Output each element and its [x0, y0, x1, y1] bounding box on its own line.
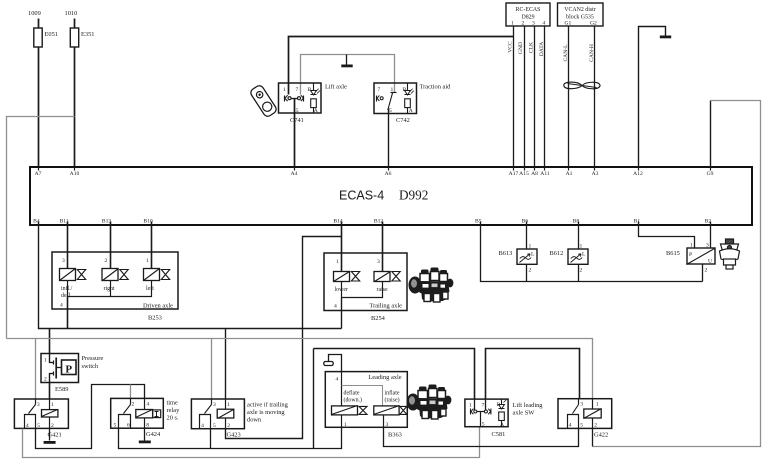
- svg-text:2: 2: [51, 423, 54, 429]
- svg-text:A10: A10: [70, 171, 80, 177]
- svg-text:3: 3: [62, 258, 65, 264]
- wire G423 pin 5 to bottom relay bus: [210, 429, 212, 449]
- fuse E051: [34, 28, 58, 47]
- svg-text:7: 7: [482, 403, 485, 409]
- svg-text:C581: C581: [492, 431, 506, 438]
- svg-text:time: time: [167, 400, 179, 407]
- wire ECAS B8 to height sensor B612 pin 1: [578, 222, 580, 249]
- wire B363 solenoid bottoms to pins 1 and 3: [342, 415, 384, 428]
- svg-text:5: 5: [114, 423, 117, 429]
- svg-text:1: 1: [469, 403, 472, 409]
- solenoid valve lower in B254: [334, 272, 360, 294]
- svg-text:1: 1: [44, 358, 47, 364]
- svg-text:RC-ECAS: RC-ECAS: [516, 7, 541, 13]
- solenoid valve right in B253: [102, 269, 128, 293]
- wire ECAS B6 to height sensor B613 pin 1: [526, 222, 528, 249]
- svg-text:B363: B363: [388, 432, 402, 439]
- wire ECAS B10 to B253 pin 1: [151, 222, 153, 269]
- wire G422 pin 2 down to right-edge loop: [592, 429, 594, 447]
- time relay G424 box: [111, 398, 180, 438]
- svg-text:1: 1: [529, 244, 532, 250]
- pin B10: [143, 219, 153, 225]
- solenoid valve left in B253: [144, 269, 170, 293]
- pin B4: [33, 219, 40, 225]
- svg-text:CAN-L: CAN-L: [563, 44, 569, 62]
- pin B5: [475, 219, 482, 225]
- svg-text:G2: G2: [590, 20, 597, 26]
- twisted pair symbol on CAN wires: [564, 82, 600, 89]
- valve block B253 Driven axle box: [52, 252, 178, 322]
- svg-text:A3: A3: [592, 171, 599, 177]
- wire ECAS B1 to pressure sensor B615 pin 1: [639, 222, 695, 249]
- svg-text:Traction aid: Traction aid: [420, 84, 452, 91]
- svg-text:2: 2: [580, 268, 583, 274]
- B363 internal wiring: [342, 372, 383, 406]
- wire ECAS B13 to B253 pin 2: [110, 222, 112, 269]
- svg-text:5: 5: [482, 422, 485, 428]
- svg-text:1: 1: [336, 259, 339, 265]
- wire gray branch to relay G421 pin 3: [35, 339, 37, 399]
- wire ECAS pin G9 loop to right edge down to relay G422 pin 2: [593, 101, 761, 447]
- svg-text:inflate: inflate: [385, 390, 400, 397]
- svg-text:3: 3: [386, 422, 389, 428]
- svg-text:A: A: [409, 108, 413, 114]
- svg-text:(down.): (down.): [344, 397, 363, 404]
- svg-text:A11: A11: [540, 171, 550, 177]
- wire branch to G424 pin 2: [130, 385, 132, 399]
- wire ECAS B5 to sensor ground bus: [481, 222, 703, 282]
- svg-text:5: 5: [580, 423, 583, 429]
- svg-text:E051: E051: [45, 31, 59, 38]
- wire ground to B363 pin 4: [329, 355, 342, 372]
- svg-text:Driven axle: Driven axle: [143, 303, 173, 310]
- wire ECAS B2 to pressure sensor B615 pin 3: [710, 222, 712, 249]
- svg-text:G1: G1: [565, 20, 572, 26]
- svg-text:P: P: [689, 252, 692, 258]
- pressure sensor B615: [666, 243, 715, 274]
- E589 pressure contact symbol: [49, 354, 76, 383]
- svg-text:3: 3: [377, 259, 380, 265]
- height sensor B612: [550, 244, 589, 274]
- pressure switch E589 box: [41, 354, 103, 394]
- node 1009: [28, 10, 41, 17]
- svg-text:1: 1: [690, 243, 693, 249]
- wire B254 internal bus to pin 4: [342, 282, 383, 298]
- svg-text:A4: A4: [291, 171, 298, 177]
- svg-text:L: L: [531, 252, 535, 258]
- svg-text:E351: E351: [81, 31, 95, 38]
- switch C742 (Traction aid) box: [374, 83, 451, 124]
- svg-text:2: 2: [227, 423, 230, 429]
- svg-text:active if trailing: active if trailing: [247, 402, 289, 409]
- C741 indicator LED and resistor between pins B and A: [311, 83, 320, 113]
- wire CAN-H from VCAN2 G2 to ECAS pin A3: [589, 27, 595, 167]
- svg-text:A15: A15: [519, 171, 529, 177]
- svg-text:4: 4: [334, 304, 337, 310]
- solenoid valve infl/defl in B253: [60, 269, 86, 300]
- wire G424 pin 8 to ground: [144, 429, 146, 441]
- svg-text:Lift axle: Lift axle: [325, 84, 347, 91]
- pin B13: [102, 219, 112, 225]
- svg-text:G424: G424: [146, 431, 161, 438]
- wire B613 pin 2 to sensor ground bus: [526, 265, 528, 282]
- svg-text:relay: relay: [167, 407, 181, 414]
- wire ECAS B12 to B254 pin 3: [382, 222, 384, 272]
- svg-text:G422: G422: [594, 432, 608, 439]
- solenoid valve deflate in B363: [332, 406, 368, 415]
- wire riser from relay bus up to leading axle feed: [313, 349, 315, 449]
- pin A11: [540, 168, 550, 177]
- wire E589 pin 2 to relay G421 pin 1: [49, 383, 51, 399]
- ground symbol at B363: [324, 362, 333, 366]
- wire B363 pin 3 to relay G422 pin 5: [384, 428, 579, 447]
- svg-text:(raise): (raise): [385, 397, 400, 404]
- pin A4: [291, 168, 298, 177]
- svg-text:A1: A1: [566, 171, 573, 177]
- svg-text:Lift leading: Lift leading: [513, 402, 544, 409]
- pin A6: [385, 168, 392, 177]
- svg-text:VCC: VCC: [508, 41, 514, 53]
- svg-text:deflate: deflate: [344, 390, 360, 397]
- pin A7: [35, 168, 42, 177]
- wire from 1010 to ECAS pin A10: [74, 19, 76, 167]
- rocker switch icon left of C741: [249, 84, 278, 118]
- svg-text:4: 4: [201, 423, 204, 429]
- C741 rocker contact symbol: [285, 95, 304, 101]
- wire VCC feed from RC-ECAS pin1 to switch C741 pin 1: [289, 37, 514, 95]
- G423 contact symbol: [200, 399, 212, 429]
- wire G421 pin 2 to ground: [49, 429, 51, 441]
- wire branch supply bus to relay G423 pin 1: [225, 329, 227, 399]
- pin B6: [522, 219, 529, 225]
- svg-text:2: 2: [594, 423, 597, 429]
- wire ECAS B11 to B253 pin 3: [67, 222, 69, 269]
- G421 contact symbol: [25, 399, 36, 429]
- svg-text:switch: switch: [82, 363, 99, 370]
- svg-text:2: 2: [44, 377, 47, 383]
- svg-text:7: 7: [296, 87, 299, 93]
- svg-text:A12: A12: [633, 171, 643, 177]
- svg-text:7: 7: [378, 87, 381, 93]
- wire ECAS B14 to B254 pin 1: [341, 222, 343, 272]
- svg-text:B6: B6: [522, 219, 529, 225]
- wire B612 pin 2 to sensor ground bus: [578, 265, 580, 282]
- svg-text:2: 2: [529, 268, 532, 274]
- pin B12: [374, 219, 384, 225]
- switch C741 (Lift axle) box: [279, 83, 347, 124]
- wire CAN-L from VCAN2 G1 to ECAS pin A1: [563, 27, 569, 167]
- wire ground net of switches C741 pin7 / C742 pin1: [301, 55, 395, 95]
- svg-text:1: 1: [580, 244, 583, 250]
- svg-text:1: 1: [596, 402, 599, 408]
- wire gray branch to relay G423 pin 3: [211, 339, 213, 399]
- wire B253 pin 4 down to supply bus: [67, 297, 69, 329]
- wire C741 pin5 to ECAS pin A4: [294, 99, 296, 167]
- valve block B254 Trailing axle box: [324, 253, 407, 322]
- svg-text:Pressure: Pressure: [82, 355, 104, 362]
- relay G422 box: [558, 399, 612, 439]
- ground symbol between C741 and C742: [341, 55, 352, 68]
- svg-text:CAN-H: CAN-H: [589, 44, 595, 62]
- svg-text:VCAN2 distr: VCAN2 distr: [564, 7, 596, 13]
- switch C581 (Lift leading axle SW) box: [465, 399, 543, 438]
- svg-text:U: U: [708, 259, 712, 265]
- svg-text:3: 3: [580, 402, 583, 408]
- svg-text:4: 4: [569, 423, 572, 429]
- svg-text:5: 5: [296, 108, 299, 114]
- wire RC-ECAS pin1 VCC to ECAS pin A17: [508, 27, 514, 167]
- svg-text:2: 2: [522, 20, 525, 26]
- G421 coil: [42, 399, 58, 429]
- svg-text:A8: A8: [531, 171, 538, 177]
- C581 indicator LED and resistor between pins B and A: [499, 400, 507, 427]
- svg-text:5: 5: [37, 423, 40, 429]
- solenoid valve raise in B254: [374, 272, 400, 294]
- wire C581 pin 7 to relay G422 pin 3: [486, 349, 580, 400]
- G422 contact symbol: [568, 399, 579, 429]
- svg-text:2: 2: [132, 402, 135, 408]
- G423 coil: [217, 399, 234, 429]
- svg-text:axle is moving: axle is moving: [247, 409, 285, 416]
- svg-text:3: 3: [532, 20, 535, 26]
- svg-text:1: 1: [51, 402, 54, 408]
- svg-text:1009: 1009: [28, 10, 41, 17]
- svg-text:3: 3: [37, 402, 40, 408]
- svg-text:right: right: [104, 286, 115, 292]
- node 1010: [65, 10, 78, 17]
- svg-text:1: 1: [227, 402, 230, 408]
- wire B615 pin 2 to sensor ground bus: [702, 265, 704, 282]
- svg-text:2: 2: [105, 258, 108, 264]
- svg-text:A: A: [314, 108, 318, 114]
- physical pressure sensor icon right of B615: [720, 239, 740, 269]
- svg-text:left: left: [146, 285, 154, 292]
- wire gray ground bus across page: [7, 339, 593, 399]
- svg-text:B253: B253: [148, 315, 162, 322]
- ground symbol top right: [660, 36, 671, 39]
- pin A8: [531, 168, 538, 177]
- svg-text:B613: B613: [499, 250, 513, 257]
- svg-text:L: L: [582, 252, 586, 258]
- C742 contact symbol: [377, 93, 397, 111]
- svg-text:4: 4: [147, 402, 150, 408]
- wire branch from B14 node to relay G423 pin 2: [226, 237, 342, 439]
- svg-text:5: 5: [213, 423, 216, 429]
- svg-text:8: 8: [146, 423, 149, 429]
- G424 coil with timer element: [136, 399, 161, 429]
- pin B11: [60, 219, 69, 225]
- svg-text:B1: B1: [634, 219, 641, 225]
- C581 rocker contact symbol: [471, 400, 491, 427]
- svg-text:axle SW: axle SW: [513, 410, 536, 417]
- pin B2: [705, 219, 712, 225]
- wire supply bus from ECAS B4 across to B254 pin 4: [39, 222, 342, 329]
- pin B14: [333, 219, 343, 225]
- pin A1: [566, 168, 573, 177]
- remote control unit RC-ECAS D829 box: [506, 3, 550, 26]
- svg-text:C742: C742: [396, 117, 410, 124]
- svg-text:B254: B254: [371, 315, 386, 322]
- wire RC-ECAS pin3 CLK to ECAS pin A8: [529, 27, 535, 167]
- svg-text:5: 5: [389, 108, 392, 114]
- wire G421 pin 5 to time relay G424 pins 4 and 2: [36, 385, 145, 449]
- svg-text:6: 6: [127, 423, 130, 429]
- pin B8: [573, 219, 580, 225]
- svg-text:1010: 1010: [65, 10, 78, 17]
- svg-text:P: P: [65, 364, 72, 376]
- solenoid valve inflate in B363: [374, 406, 407, 415]
- svg-text:3: 3: [213, 402, 216, 408]
- svg-text:2: 2: [705, 268, 708, 274]
- wire B253 internal bus to pin 4: [68, 281, 152, 297]
- svg-text:Trailing axle: Trailing axle: [369, 303, 402, 310]
- pin A15: [519, 168, 529, 177]
- wire RC-ECAS pin4 DATA to ECAS pin A11: [539, 27, 545, 167]
- svg-text:CLK: CLK: [529, 42, 535, 53]
- pin A10: [70, 168, 80, 177]
- wire gray G421 pin 4 to bottom gray bus to C581 pin 5: [23, 427, 480, 458]
- svg-text:Leading axle: Leading axle: [368, 374, 401, 381]
- pin B1: [634, 219, 641, 225]
- svg-text:A6: A6: [385, 171, 392, 177]
- svg-text:3: 3: [706, 243, 709, 249]
- wire RC-ECAS pin2 GND to ECAS pin A15: [518, 27, 525, 167]
- svg-text:1: 1: [283, 87, 286, 93]
- svg-text:20 s.: 20 s.: [167, 415, 179, 422]
- physical valve block icon beside B254: [409, 268, 454, 303]
- ECU ECAS-4 D992: [30, 167, 752, 225]
- physical valve block icon beside B363: [407, 385, 452, 420]
- svg-text:ECAS-4: ECAS-4: [339, 189, 384, 203]
- svg-text:down: down: [247, 417, 262, 424]
- svg-text:infl./: infl./: [61, 285, 73, 292]
- svg-text:A7: A7: [35, 171, 42, 177]
- svg-text:1: 1: [511, 20, 514, 26]
- pin A12: [633, 168, 643, 177]
- G424 contact symbol: [119, 399, 131, 429]
- G422 coil: [584, 399, 602, 429]
- svg-text:GND: GND: [518, 42, 524, 54]
- svg-text:D992: D992: [399, 188, 428, 203]
- svg-text:E589: E589: [55, 386, 69, 393]
- svg-text:4: 4: [543, 20, 546, 26]
- wire leading axle feed to switch C581 pin 1: [314, 349, 475, 400]
- pin A3: [592, 168, 599, 177]
- wire G424 pin 5 along bottom relay bus to B363 pin 1: [119, 428, 342, 449]
- wire branch supply bus to pressure switch E589 pin 1: [49, 329, 51, 354]
- svg-text:DATA: DATA: [539, 42, 545, 56]
- fuse E351: [70, 28, 94, 47]
- wire B254 pin 4 down to supply bus corner: [341, 298, 343, 329]
- VCAN2 distribution block G535 box: [558, 3, 604, 26]
- svg-text:G423: G423: [227, 432, 241, 439]
- ground symbol under G421: [44, 441, 56, 444]
- svg-text:1: 1: [344, 422, 347, 428]
- ground symbol under G424: [139, 441, 151, 444]
- wire C742 pin5 to ECAS pin A6: [388, 109, 390, 167]
- svg-text:A17: A17: [509, 171, 519, 177]
- wire gray branch from A10 wire to left edge and down to gray bus: [7, 117, 75, 339]
- relay G423 box: [191, 399, 288, 439]
- svg-text:4: 4: [60, 303, 63, 309]
- wire from 1009 to ECAS pin A7: [38, 19, 40, 167]
- pin G9: [707, 168, 714, 177]
- height sensor B613: [499, 244, 538, 274]
- wire ECAS pin A12 to chassis ground top right: [639, 27, 666, 167]
- svg-text:B615: B615: [666, 250, 680, 257]
- svg-text:4: 4: [336, 377, 339, 383]
- svg-text:defl.: defl.: [61, 292, 72, 299]
- valve block B363 Leading axle box: [325, 372, 407, 439]
- pin A17: [509, 168, 519, 177]
- svg-text:G9: G9: [707, 171, 714, 177]
- svg-text:4: 4: [26, 423, 29, 429]
- svg-text:C741: C741: [290, 117, 304, 124]
- relay G421 box: [14, 399, 68, 439]
- svg-text:B612: B612: [550, 250, 564, 257]
- svg-text:1: 1: [146, 258, 149, 264]
- C742 indicator LED and resistor between pins B and A: [405, 83, 414, 114]
